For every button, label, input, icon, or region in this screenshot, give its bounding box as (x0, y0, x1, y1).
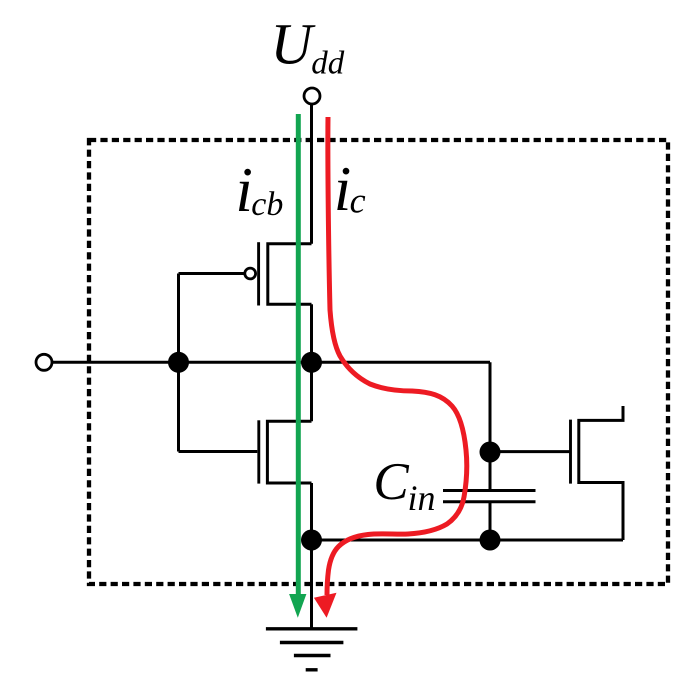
wire: bottom rail (312, 539, 624, 542)
transistor M1 PMOS: gate bubble (245, 268, 256, 279)
ground symbol (266, 629, 358, 670)
svg-text:U: U (271, 12, 317, 77)
dashed boundary box of inverter cell (89, 140, 668, 584)
transistor M2 NMOS: gate bar (257, 420, 260, 483)
wire: PMOS drain down through output node to NMOS drain (310, 304, 313, 421)
capacitor C_in: bottom plate (443, 500, 536, 503)
svg-text:i: i (235, 155, 253, 225)
wire: NMOS gate to left vertical (179, 450, 258, 453)
node dot: output node (301, 352, 322, 373)
current arrow i_cb (green) shaft (296, 114, 301, 598)
node dot: bottom-left node (301, 530, 322, 551)
wire: NMOS source down through bottom node to ground (310, 483, 313, 630)
transistor M3 next-stage NMOS: channel bar with leads (579, 406, 623, 540)
node dot: capacitor bottom node (480, 530, 501, 551)
current path i_c (red) arrowhead (314, 593, 337, 618)
svg-text:i: i (334, 154, 352, 224)
supply terminal circle (304, 88, 320, 104)
svg-text:cb: cb (251, 186, 283, 223)
transistor M1 PMOS: gate bar (257, 242, 260, 305)
wire: Udd terminal down to PMOS source lead (310, 105, 313, 244)
transistor M2 NMOS: channel bar and drain/source leads (267, 421, 311, 483)
current path i_c (red) curve (327, 117, 467, 595)
svg-text:in: in (408, 478, 436, 518)
node dot: input node (168, 352, 189, 373)
transistor M1 PMOS: channel bar and source/drain leads (268, 244, 312, 305)
current arrow i_cb (green) head (289, 594, 306, 618)
svg-text:dd: dd (311, 46, 345, 82)
wire: left vertical between PMOS and NMOS gates (177, 274, 180, 452)
wire: PMOS gate to left vertical (179, 272, 245, 275)
wire: cap top node to next-stage gate (490, 450, 570, 453)
svg-text:c: c (350, 180, 366, 220)
svg-text:C: C (373, 453, 409, 511)
wire: output corner down to capacitor top node (489, 362, 492, 452)
transistor M3 next-stage NMOS: gate bar (569, 420, 572, 484)
wire: input horizontal line to output-right corner (53, 361, 491, 364)
wire: bottom capacitor plate to bottom node (489, 502, 492, 540)
node dot: capacitor top node (480, 442, 501, 463)
capacitor C_in: top plate (443, 489, 536, 492)
wire: cap top node to top capacitor plate (489, 452, 492, 489)
input terminal circle (36, 354, 52, 370)
